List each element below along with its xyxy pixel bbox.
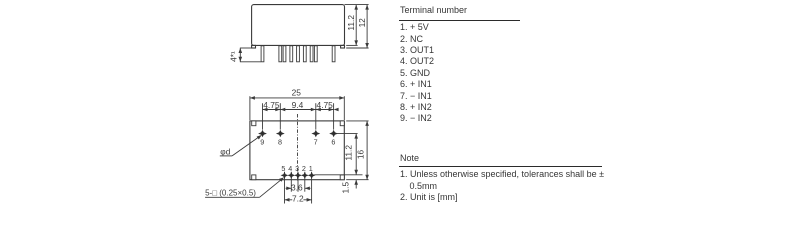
corner foot top-right [340, 121, 344, 126]
svg-text:9.4: 9.4 [292, 100, 304, 110]
svg-text:φd: φd [220, 147, 230, 157]
side view seating extension line [346, 47, 368, 49]
pin 6 marker [329, 130, 338, 137]
side view right foot [341, 45, 345, 48]
svg-text:3: 3 [295, 164, 299, 173]
svg-text:2: 2 [302, 164, 306, 173]
side view pin 7 [314, 46, 317, 62]
extension from pin 6 to right [337, 133, 358, 135]
side view body-bottom extension line [346, 44, 357, 46]
svg-text:6: 6 [331, 137, 335, 146]
svg-text:1: 1 [309, 164, 313, 173]
leader 5-square terminal note [205, 178, 283, 197]
side view pin 4 [290, 46, 293, 62]
leader phi-d [220, 136, 261, 156]
pin 5 marker [281, 172, 289, 179]
svg-text:8: 8 [278, 137, 282, 146]
dimension 25 [250, 96, 344, 120]
svg-text:1.5: 1.5 [340, 182, 350, 194]
pin 8 marker [276, 130, 285, 137]
dimension 4*1 pin length [240, 48, 261, 62]
side view pin 3 [297, 46, 300, 62]
rule under Note [399, 166, 602, 167]
svg-text:4.75: 4.75 [317, 100, 334, 110]
terminal list [400, 22, 434, 124]
side view pin 9 [261, 46, 264, 62]
side view left foot [252, 45, 256, 48]
svg-text:11.2: 11.2 [346, 15, 356, 31]
svg-text:7.2: 7.2 [292, 194, 304, 204]
dimension 7.2 [285, 199, 312, 201]
svg-text:5: 5 [281, 164, 285, 173]
dimension 11.2 bottom view [355, 134, 357, 175]
pin 2 marker [301, 172, 309, 179]
dimension 11.2 side view [355, 5, 357, 46]
bottom view body [250, 121, 344, 180]
svg-text:3.6: 3.6 [291, 183, 303, 193]
svg-text:4*¹: 4*¹ [229, 51, 239, 62]
pin 3 marker [294, 172, 302, 179]
heading Terminal number [400, 5, 467, 15]
side view pin 6 [332, 46, 335, 62]
svg-text:11.2: 11.2 [344, 145, 354, 161]
bottom row extension lines [285, 172, 312, 204]
chain dimension 4.75 / 9.4 / 4.75 [263, 103, 334, 129]
side view pin 2 [303, 46, 306, 62]
side view pin 8 [279, 46, 282, 62]
side view pin 1 [310, 46, 313, 62]
svg-text:4: 4 [288, 164, 292, 173]
dimension 1.5 [355, 180, 357, 189]
svg-text:9: 9 [260, 137, 264, 146]
corner foot top-left [252, 121, 256, 126]
pin 1 marker [308, 172, 316, 179]
svg-text:7: 7 [314, 137, 318, 146]
svg-text:4.75: 4.75 [263, 100, 280, 110]
note list [400, 169, 604, 203]
heading Note [400, 153, 419, 163]
pin 4 marker [287, 172, 295, 179]
svg-text:25: 25 [292, 87, 302, 97]
dimension 16 [366, 121, 368, 180]
center line [297, 114, 299, 181]
pin 7 marker [311, 130, 320, 137]
corner foot bottom-left [252, 175, 256, 180]
bottom view top edge extension to right [346, 120, 368, 122]
dimension 12 side view [366, 5, 368, 48]
side view pin 5 [283, 46, 286, 62]
svg-text:5-□ (0.25×0.5): 5-□ (0.25×0.5) [205, 188, 256, 197]
pin 9 marker [258, 130, 267, 137]
extension from pin 1 to right [314, 174, 362, 176]
corner foot bottom-right [340, 175, 344, 180]
side view top extension line [345, 4, 369, 6]
side view body [252, 5, 345, 46]
dimension 3.6 [286, 187, 311, 189]
rule under heading [399, 20, 520, 21]
svg-text:16: 16 [356, 150, 366, 160]
svg-text:12: 12 [357, 18, 367, 28]
bottom view bottom edge extension to right [346, 179, 368, 181]
